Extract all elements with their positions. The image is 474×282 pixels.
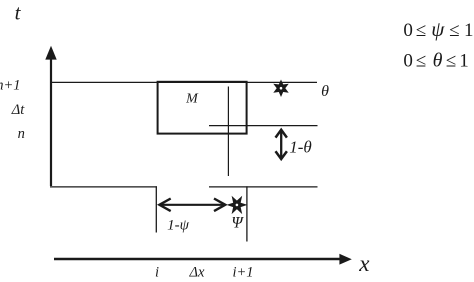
inequality 0 <= psi <= 1 bbox=[403, 17, 473, 41]
cell rectangle M bbox=[158, 82, 247, 134]
n step line left bbox=[50, 186, 157, 188]
t axis bbox=[45, 46, 56, 186]
svg-text:1-ψ: 1-ψ bbox=[167, 218, 189, 234]
svg-text:θ: θ bbox=[321, 83, 329, 100]
svg-text:i: i bbox=[155, 264, 159, 280]
1-psi double arrow bbox=[159, 199, 225, 212]
svg-text:≤: ≤ bbox=[449, 20, 459, 41]
svg-text:1-θ: 1-θ bbox=[289, 138, 312, 157]
svg-text:x: x bbox=[358, 251, 370, 276]
svg-text:0: 0 bbox=[403, 51, 413, 72]
svg-text:n+1: n+1 bbox=[0, 78, 21, 94]
svg-text:≤: ≤ bbox=[416, 51, 426, 72]
svg-text:1: 1 bbox=[464, 20, 474, 41]
svg-text:n: n bbox=[18, 126, 25, 142]
1-theta double arrow bbox=[276, 130, 287, 159]
svg-text:Δt: Δt bbox=[11, 102, 26, 118]
star marker at psi bbox=[229, 198, 244, 211]
svg-text:i+1: i+1 bbox=[232, 264, 253, 280]
svg-text:1: 1 bbox=[459, 51, 469, 72]
svg-text:θ: θ bbox=[433, 50, 443, 72]
svg-text:≤: ≤ bbox=[446, 51, 456, 72]
inequality 0 <= theta <= 1 bbox=[403, 50, 468, 72]
x axis bbox=[54, 254, 352, 265]
theta level line bbox=[209, 125, 318, 127]
step drop at node i+1 bbox=[246, 186, 248, 241]
svg-text:0: 0 bbox=[403, 20, 413, 41]
svg-text:M: M bbox=[185, 92, 199, 107]
svg-text:Ψ: Ψ bbox=[231, 214, 244, 231]
n+1 level line bbox=[50, 81, 317, 83]
svg-text:≤: ≤ bbox=[416, 20, 426, 41]
step drop at node i bbox=[155, 186, 157, 232]
star marker on theta line bbox=[276, 82, 287, 95]
svg-text:ψ: ψ bbox=[431, 17, 445, 41]
n step line right bbox=[209, 186, 318, 188]
svg-text:Δx: Δx bbox=[189, 264, 206, 280]
vertical guide line through cell bbox=[227, 87, 229, 177]
